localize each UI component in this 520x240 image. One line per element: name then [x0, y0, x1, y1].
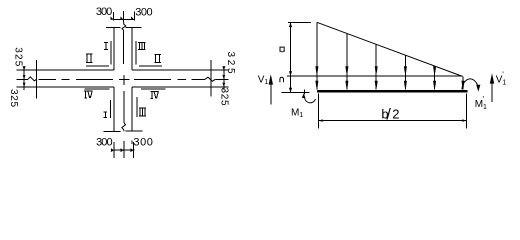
- b/2 arrow left: [319, 119, 323, 122]
- label II right: [154, 55, 161, 63]
- right dimension line: [223, 66, 225, 90]
- b/2 arrow right: [462, 119, 466, 122]
- b/2 dimension line: [319, 120, 467, 122]
- load arrow shaft 5: [434, 67, 436, 90]
- label II left: [86, 54, 93, 62]
- load arrowhead lower 5: [433, 81, 436, 88]
- svg-text:300: 300: [96, 6, 112, 18]
- top dimension right tick: [133, 12, 135, 21]
- top dimension line: [114, 19, 135, 21]
- load arrowhead upper 4: [404, 66, 407, 73]
- bottom dimension line: [114, 149, 135, 151]
- vertical strip right edge bottom: [131, 87, 133, 132]
- M1 right arrowhead: [476, 85, 480, 92]
- a dim arrow bottom: [289, 71, 292, 76]
- label IV left serifs and I stem: [84, 91, 92, 98]
- a dim arrow top: [289, 23, 292, 28]
- section line II left: [86, 65, 109, 67]
- section line IV right: [141, 88, 166, 90]
- vertical centerline upper segment: [123, 31, 125, 65]
- svg-text:300: 300: [96, 137, 113, 149]
- section line III top: [135, 41, 137, 65]
- vertical centerline bottom tick: [123, 141, 125, 158]
- vertical strip left edge top: [113, 28, 115, 71]
- vertical centerline lower segment: [123, 91, 125, 123]
- load arrowhead lower 3: [375, 81, 378, 88]
- section line I top: [110, 41, 112, 65]
- center cross horizontal bar: [119, 79, 130, 81]
- beam-level left extension: [282, 91, 310, 93]
- svg-text:325: 325: [12, 47, 23, 66]
- left dimension top extension: [17, 69, 37, 71]
- horizontal strip top edge right: [132, 69, 211, 71]
- bottom dim arrow center-left: [121, 148, 124, 152]
- right dimension top extension: [211, 69, 229, 71]
- horizontal centerline left dashes: [39, 78, 113, 80]
- V1 right arrow shaft: [491, 76, 493, 102]
- beam: [317, 90, 467, 93]
- vertical strip right edge top: [131, 28, 133, 71]
- left dimension bottom extension: [17, 86, 37, 88]
- label III top: [138, 43, 145, 50]
- top dimension left tick: [113, 12, 115, 21]
- a-c dimension line: [290, 23, 292, 93]
- bottom cap: [104, 130, 143, 133]
- vertical centerline top zigzag: [122, 22, 126, 31]
- label IV left V strokes: [88, 91, 92, 98]
- load mid horizontal line: [287, 75, 462, 77]
- bottom dimension left tick: [113, 142, 115, 158]
- svg-text:325: 325: [219, 88, 230, 106]
- left dim arrow top: [23, 66, 26, 70]
- load right edge / arrow shaft 6: [462, 76, 464, 89]
- section line I bottom: [110, 100, 112, 118]
- bottom dimension right tick: [133, 142, 135, 158]
- load arrowhead upper 3: [375, 66, 378, 73]
- M1 left arc: [305, 98, 316, 103]
- svg-text:325: 325: [225, 52, 236, 74]
- load arrowhead lower 2: [345, 81, 348, 88]
- top dim arrow center-left: [120, 16, 123, 19]
- load left edge / arrow shaft 1: [316, 22, 318, 89]
- right strip edge nub below cap: [131, 141, 133, 145]
- svg-text:M1: M1: [291, 108, 303, 120]
- M1 left arrowhead: [302, 93, 306, 98]
- a dim top extension: [288, 22, 311, 24]
- top dim arrow left-out: [111, 16, 114, 19]
- V1 left arrowhead: [269, 74, 273, 84]
- c dim arrow bottom: [289, 88, 292, 93]
- b/2 right extension: [465, 94, 467, 129]
- section line II right: [139, 65, 162, 67]
- top cap: [106, 27, 142, 29]
- V1 left arrow shaft: [270, 77, 272, 105]
- load arrowhead upper 5: [433, 66, 436, 73]
- vertical centerline top tick: [123, 11, 125, 22]
- horizontal strip bottom edge left: [37, 86, 114, 88]
- svg-text:V1: V1: [258, 75, 269, 87]
- svg-text:2: 2: [392, 107, 399, 122]
- svg-text:325: 325: [8, 89, 19, 107]
- svg-text:300: 300: [133, 137, 153, 149]
- horizontal centerline left zigzag: [28, 77, 37, 81]
- horizontal centerline left extension: [17, 78, 29, 80]
- left cap: [36, 60, 38, 99]
- load hypotenuse: [317, 22, 463, 76]
- label I top: [104, 43, 108, 50]
- vertical centerline bottom zigzag: [122, 123, 126, 132]
- horizontal centerline right extension: [215, 78, 228, 80]
- load arrowhead upper 2: [345, 66, 348, 73]
- section line IV left: [85, 88, 110, 90]
- svg-text:/: /: [386, 106, 391, 123]
- right cap: [210, 60, 212, 97]
- vertical strip left edge bottom: [113, 87, 115, 132]
- bottom dim arrow right-out: [130, 148, 133, 152]
- horizontal strip top edge left: [37, 69, 114, 71]
- load arrow shaft 4: [404, 56, 406, 90]
- label IV right V strokes: [154, 91, 158, 98]
- svg-text:M1': M1': [475, 95, 487, 111]
- right dim arrow bottom: [222, 83, 225, 87]
- horizontal strip bottom edge right: [132, 86, 211, 88]
- svg-text:V1': V1': [496, 70, 507, 86]
- label III bottom: [139, 108, 146, 116]
- load arrowhead lower 4: [404, 81, 407, 88]
- svg-text:300: 300: [135, 7, 152, 19]
- center cross vertical bar: [123, 75, 125, 85]
- right dim arrow top: [222, 66, 225, 70]
- moment left tick: [304, 90, 306, 95]
- V1 right arrowhead: [490, 73, 494, 83]
- load arrowhead lower 1: [315, 81, 318, 88]
- left dim arrow center-up: [23, 75, 26, 79]
- load arrowhead lower 6: [462, 81, 465, 88]
- horizontal centerline right zigzag: [205, 77, 215, 81]
- left dim arrow bottom: [23, 83, 26, 87]
- load arrow shaft 2: [346, 34, 348, 90]
- load arrow shaft 3: [375, 45, 377, 90]
- right dim arrow center-up: [222, 75, 225, 79]
- section line III bottom: [136, 97, 138, 117]
- label c (rotated): [280, 77, 284, 82]
- label IV right serifs and I stem: [150, 91, 158, 98]
- top dim arrow right-out: [131, 16, 134, 19]
- label I bottom: [103, 112, 107, 117]
- horizontal centerline right dashes: [134, 78, 205, 80]
- left dimension line: [23, 66, 25, 90]
- bottom dim arrow left-out: [111, 148, 114, 152]
- load arrowhead upper 1: [315, 66, 318, 73]
- b/2 left extension: [318, 94, 320, 129]
- right dimension bottom extension: [211, 86, 229, 88]
- label a (rotated): [280, 47, 284, 52]
- M1 right arc: [462, 79, 479, 90]
